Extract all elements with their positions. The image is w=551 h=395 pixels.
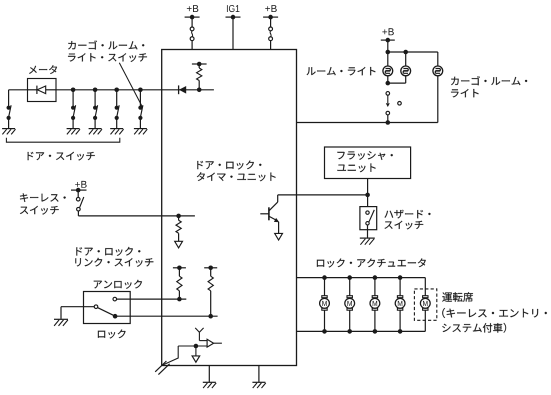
- ground unit 2: [252, 382, 265, 388]
- lock actuator motor 5: [420, 278, 430, 332]
- hazard switch box: [360, 207, 377, 230]
- link switch common contact and blade: [94, 305, 114, 316]
- link switch unlock contact: [113, 297, 117, 301]
- label cargo room light line2: [451, 89, 479, 97]
- door switch 2: [71, 88, 76, 129]
- wire lock signal: [115, 314, 218, 319]
- door switch 3: [93, 88, 98, 129]
- ground door switch 2: [67, 129, 80, 135]
- label unlock: [94, 280, 142, 289]
- wire actuator bus top: [297, 277, 426, 279]
- wire unlock signal: [117, 297, 187, 302]
- arrow to ground (internal node): [192, 346, 200, 362]
- label meter: [29, 65, 57, 74]
- buffer arrow symbol: [207, 339, 222, 347]
- leader line cargo room light switch: [119, 63, 142, 108]
- bracket door switches: [6, 138, 119, 142]
- label hazard switch line1: [385, 210, 431, 219]
- label keyless switch line2: [20, 206, 59, 215]
- room light lamp 2: [386, 52, 411, 85]
- internal resistor R-unlock: [173, 266, 186, 300]
- internal resistor R-lock: [204, 266, 217, 317]
- wire door-switch input inside unit: [162, 89, 214, 91]
- link switch lock contact: [113, 314, 118, 319]
- ground hazard switch: [360, 238, 375, 245]
- meter box with diode: [28, 79, 57, 102]
- wire transistor collector to flasher node: [278, 194, 368, 196]
- wire hazard switch to ground: [367, 225, 369, 238]
- label keyless entry line2: [442, 323, 506, 333]
- label door switch: [28, 152, 95, 161]
- wire link switch common to ground: [61, 307, 94, 319]
- wire door-switch bus: [9, 90, 162, 106]
- label door lock link switch line2: [75, 258, 153, 267]
- label lock: [98, 330, 126, 339]
- wire to case corner: [162, 346, 178, 365]
- ground unit 1: [203, 382, 216, 388]
- label door-lock timer unit line2: [197, 172, 276, 181]
- door switch 1: [7, 105, 12, 128]
- label room light: [307, 67, 376, 75]
- label keyless entry line1: [442, 308, 547, 318]
- label keyless switch line1: [20, 193, 66, 202]
- flasher unit box: [325, 147, 411, 179]
- label door lock link switch line1: [76, 247, 140, 256]
- label hazard switch line2: [384, 221, 423, 230]
- internal fork symbol: [195, 328, 207, 341]
- node room light feed: [386, 50, 438, 55]
- label cargo room light switch line1: [68, 40, 144, 49]
- arrow to ground (transistor emitter): [275, 233, 283, 240]
- room light lamp 1: [383, 52, 393, 83]
- dashed box driver seat actuator: [414, 289, 436, 320]
- ground door switch 5: [134, 129, 147, 135]
- cargo room light lamp: [433, 52, 443, 123]
- label flasher unit line1: [337, 151, 392, 160]
- transistor (hazard drive): [260, 195, 279, 234]
- label cargo room light line1: [451, 76, 527, 85]
- power terminal +B (keyless): [71, 181, 87, 193]
- power terminal +B (right): [263, 5, 278, 27]
- lock actuator motor 4: [395, 275, 405, 333]
- label driver seat: [442, 292, 473, 302]
- lock actuator motor 2: [345, 275, 355, 333]
- power terminal +B (left): [185, 5, 200, 27]
- label flasher unit line2: [337, 164, 375, 173]
- ground door switch 1: [2, 129, 15, 135]
- ground door switch 3: [89, 129, 102, 135]
- wire node to hazard switch: [367, 195, 369, 207]
- ground door switch 4: [110, 129, 123, 135]
- hazard switch contacts: [366, 210, 375, 225]
- lock actuator motor 1: [320, 275, 330, 333]
- case corner hash marks: [155, 361, 169, 375]
- keyless switch contacts: [76, 190, 83, 216]
- wire unit ground 1: [208, 366, 210, 382]
- door switch 5: [138, 88, 143, 129]
- wire unit ground 2: [258, 366, 260, 382]
- wire room light return: [297, 122, 438, 124]
- door switch 4: [114, 88, 119, 129]
- door-lock timer unit box: [162, 50, 297, 366]
- wire internal node: [178, 344, 207, 349]
- internal pull-up resistor (door switch input): [192, 62, 207, 90]
- label door-lock timer unit line1: [197, 161, 261, 170]
- diode on door-switch input: [179, 85, 202, 94]
- wire keyless switch to unit: [78, 214, 194, 219]
- wire actuator bus bottom: [297, 330, 426, 332]
- power terminal IG1: [226, 5, 241, 50]
- fuse on +B right feed: [269, 27, 273, 50]
- label cargo room light switch line2: [68, 53, 147, 62]
- arrow to ground (keyless input): [175, 241, 183, 248]
- fuse on +B left feed: [190, 27, 194, 50]
- door lock link switch box: [84, 292, 131, 324]
- room light switch: [386, 92, 402, 125]
- internal resistor (keyless input): [176, 216, 181, 241]
- ground link switch: [54, 319, 68, 326]
- power terminal +B (room light): [381, 28, 395, 52]
- lock actuator motor 3: [370, 275, 380, 333]
- label lock actuator: [317, 258, 426, 267]
- wire flasher to node: [365, 179, 370, 198]
